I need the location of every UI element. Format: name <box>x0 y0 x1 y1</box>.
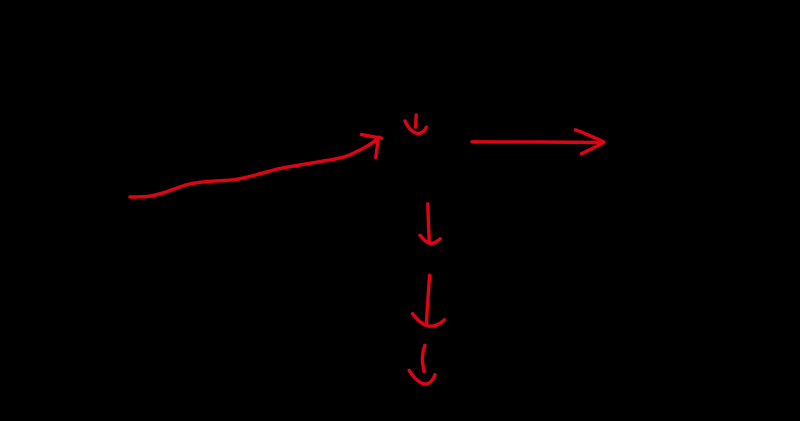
small curved arrow at bottom <box>409 345 435 384</box>
vertical arrow 1 (upper) <box>420 204 440 244</box>
wavy arrow rising from lower-left to center <box>130 135 382 197</box>
vertical arrow 2 (lower) <box>413 275 445 326</box>
horizontal arrow pointing right <box>472 130 604 154</box>
small hooked down-arrow above center <box>405 115 426 133</box>
